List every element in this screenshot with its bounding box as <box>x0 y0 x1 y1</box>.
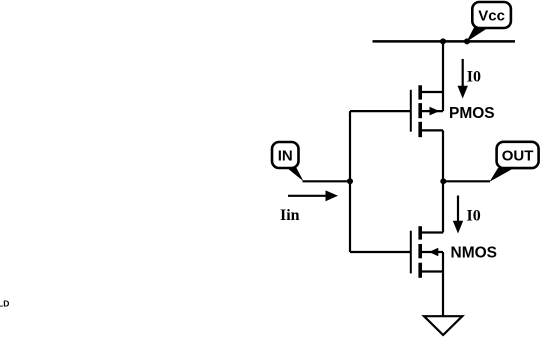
ground symbol <box>424 316 462 335</box>
wire: gate bus (PMOS gate to NMOS gate) <box>349 111 351 252</box>
wire: OUT node to OUT callout <box>443 180 490 182</box>
wire: Vcc supply rail <box>373 40 516 43</box>
NMOS body lead with arrow <box>420 251 443 253</box>
svg-text:I0: I0 <box>467 68 481 85</box>
svg-text:I0: I0 <box>467 208 481 225</box>
transistor M2 NMOS <box>350 226 443 278</box>
svg-text:Iin: Iin <box>280 207 300 224</box>
NMOS channel segment (body) <box>418 244 422 258</box>
PMOS gate bar <box>410 90 412 132</box>
current arrow Iin <box>288 190 338 201</box>
wire: IN callout to gate node <box>303 180 351 182</box>
svg-text:Vcc: Vcc <box>478 7 505 24</box>
transistor M1 PMOS <box>350 85 443 137</box>
NMOS channel segment (source) <box>418 263 422 278</box>
junction dot on rail (under Vcc tail) <box>464 38 470 44</box>
svg-text:NMOS: NMOS <box>451 244 498 261</box>
wire: NMOS body/source to ground <box>442 252 444 316</box>
NMOS gate bar <box>410 231 412 274</box>
NMOS drain lead <box>420 231 443 233</box>
svg-text:PMOS: PMOS <box>449 105 495 122</box>
net label IN callout <box>272 142 304 181</box>
net label OUT callout <box>490 142 539 182</box>
svg-text:OUT: OUT <box>502 147 534 164</box>
NMOS channel segment (drain) <box>418 226 422 239</box>
current arrow I0 (top) <box>458 59 468 99</box>
svg-text:IN: IN <box>278 148 293 165</box>
node gate junction dot <box>347 178 353 184</box>
PMOS source lead <box>420 91 443 93</box>
PMOS channel segment (source) <box>418 85 422 99</box>
PMOS channel segment (drain) <box>418 122 422 137</box>
net label Vcc callout <box>467 2 511 42</box>
NMOS gate lead <box>350 251 411 253</box>
junction dot on rail (left) <box>440 38 446 44</box>
PMOS gate lead <box>350 110 411 112</box>
wire: OUT node to NMOS drain <box>442 181 444 232</box>
wire: PMOS drain to OUT node <box>442 130 444 181</box>
node OUT junction dot <box>440 178 446 184</box>
current arrow I0 (bottom) <box>453 196 463 234</box>
PMOS drain lead <box>420 129 443 131</box>
wire: rail to PMOS source/body <box>442 41 444 111</box>
NMOS source lead <box>420 270 443 272</box>
PMOS body lead with arrow <box>420 110 443 112</box>
PMOS channel segment (body) <box>418 103 422 118</box>
svg-text:LD: LD <box>0 299 9 309</box>
